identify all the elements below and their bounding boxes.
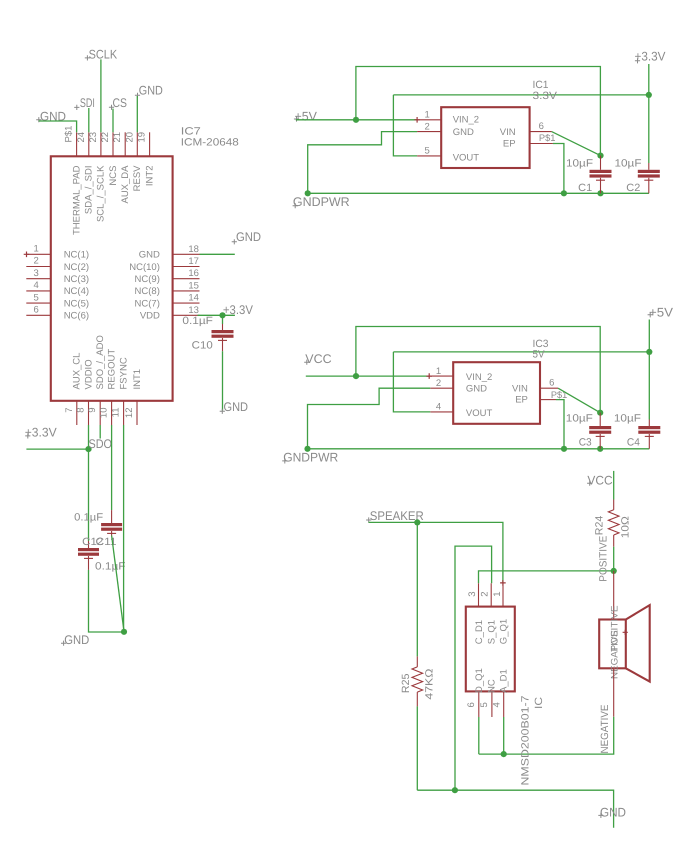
svg-text:6: 6 <box>549 377 554 388</box>
svg-text:1: 1 <box>425 110 430 121</box>
svg-text:A_D1: A_D1 <box>499 669 510 693</box>
wire VCC to R24 <box>613 471 615 500</box>
IC7 top pin 22 (NCS) <box>112 132 114 156</box>
speaker SP1 negative pin <box>613 668 615 716</box>
NMSD pin 4 A_D1 <box>503 691 505 717</box>
svg-text:2: 2 <box>479 592 490 597</box>
wire +3.3V down <box>648 64 650 95</box>
svg-text:8: 8 <box>76 408 87 413</box>
svg-text:NC(1): NC(1) <box>64 250 89 261</box>
node C1 top junction <box>597 153 603 159</box>
capacitor C12 <box>78 548 99 551</box>
wire pin 11 down <box>123 425 125 632</box>
IC7 bottom pin 8 (VDDIO) <box>88 401 90 425</box>
wire VIN loop (IC1) <box>356 67 601 156</box>
svg-text:VIN: VIN <box>512 384 528 395</box>
NMSD pin 3 C_D1 <box>478 583 480 606</box>
svg-text:S_Q1: S_Q1 <box>486 620 497 644</box>
svg-text:VCC: VCC <box>587 474 612 488</box>
wire +3.3V to C2 <box>648 95 650 163</box>
IC1 pin 6 VIN <box>530 131 552 133</box>
node GNDPWR corner junction <box>305 190 311 196</box>
svg-text:6: 6 <box>539 121 544 132</box>
capacitor C2 top lead <box>648 163 650 170</box>
svg-text:+3.3V: +3.3V <box>25 426 58 440</box>
svg-text:NC(8): NC(8) <box>135 286 160 297</box>
IC7 left pin 4 (NC(4)) <box>26 290 51 292</box>
IC7 bottom pin 7 (AUX_CL) <box>76 401 78 425</box>
svg-text:10µF: 10µF <box>566 413 593 425</box>
svg-text:3.3V: 3.3V <box>533 90 558 102</box>
capacitor C10 <box>212 330 234 333</box>
wire VIN diagonal (IC3) <box>558 388 600 413</box>
wire VIN diagonal <box>552 132 601 156</box>
svg-text:AUX_DA: AUX_DA <box>120 165 131 204</box>
svg-text:C1: C1 <box>578 182 592 194</box>
wire pin 4 up <box>503 717 505 754</box>
IC7 right pin 15 (NC(8)) <box>173 290 200 292</box>
wire pin 3 to POSITIVE <box>479 571 614 583</box>
svg-text:GNDPWR: GNDPWR <box>293 195 350 209</box>
svg-text:+3.3V: +3.3V <box>635 49 667 63</box>
node bottom rail junction <box>452 787 458 793</box>
svg-text:7: 7 <box>64 408 75 413</box>
IC7 top pin 21 (AUX_DA) <box>124 132 126 156</box>
wire VOUT to 5V rail <box>393 352 430 412</box>
svg-text:NC(7): NC(7) <box>135 298 160 309</box>
svg-text:SCLK: SCLK <box>89 47 118 61</box>
IC3 pin 2 GND <box>430 387 453 389</box>
svg-text:NC(6): NC(6) <box>64 311 89 322</box>
svg-text:GND: GND <box>453 127 474 138</box>
svg-text:R24: R24 <box>594 516 606 536</box>
node NEGATIVE junction <box>501 751 507 757</box>
svg-text:GND: GND <box>236 230 261 244</box>
IC7 bottom pin 12 (INT1) <box>136 401 138 425</box>
node 5V rail junction <box>646 349 652 355</box>
svg-text:INT2: INT2 <box>144 166 155 187</box>
IC3 pin P$1 EP <box>540 399 556 401</box>
IC3 pin 1 VIN_2 <box>429 375 453 377</box>
capacitor C12 bottom lead <box>88 556 90 570</box>
svg-text:C_D1: C_D1 <box>474 620 485 644</box>
svg-text:NEGATIVE: NEGATIVE <box>599 705 611 754</box>
NMSD pin 1 G_Q1 <box>502 583 504 606</box>
capacitor C1 <box>590 170 612 173</box>
wire pin 9 to SDO <box>99 425 101 439</box>
svg-text:GNDPWR: GNDPWR <box>283 450 338 464</box>
IC7 left pin 2 (NC(2)) <box>26 266 51 268</box>
speaker SP1 polarity mark <box>623 630 628 635</box>
svg-text:RESV: RESV <box>132 165 143 192</box>
IC7 left pin 5 (NC(5)) <box>26 302 51 304</box>
wire +5V to VIN_2 pin 1 <box>296 119 417 121</box>
IC7 right pin 14 (NC(7)) <box>173 302 200 304</box>
IC IC3 body <box>453 362 540 424</box>
svg-text:5: 5 <box>34 292 39 303</box>
svg-text:VIN_2: VIN_2 <box>453 115 479 126</box>
svg-text:VOUT: VOUT <box>466 408 493 419</box>
capacitor C2 <box>638 170 660 173</box>
svg-text:VIN: VIN <box>500 127 516 138</box>
IC NMSD200B01-7 body <box>466 607 515 692</box>
IC IC7 ICM-20648 body <box>51 156 173 400</box>
svg-text:10µF: 10µF <box>614 413 641 425</box>
wire R25 to bottom rail <box>416 706 418 790</box>
svg-text:GND: GND <box>466 384 487 395</box>
capacitor C2 bottom lead <box>648 178 650 194</box>
svg-text:GND: GND <box>64 633 89 647</box>
svg-text:22: 22 <box>100 132 111 143</box>
IC7 top pin 20 (RESV) <box>136 132 138 156</box>
svg-text:C4: C4 <box>627 437 640 449</box>
wire bottom rail <box>417 790 613 828</box>
svg-text:13: 13 <box>188 305 199 316</box>
svg-text:CS: CS <box>113 96 128 110</box>
svg-text:0.1µF: 0.1µF <box>74 511 103 523</box>
IC7 bottom pin 11 (FSYNC) <box>123 401 125 425</box>
svg-text:17: 17 <box>188 256 199 267</box>
svg-text:10µF: 10µF <box>566 157 593 169</box>
svg-text:NC: NC <box>486 679 497 693</box>
wire GND to THERMAL_PAD pin <box>39 121 77 132</box>
svg-text:1: 1 <box>492 592 503 597</box>
capacitor C12 top lead <box>88 541 90 548</box>
svg-text:1: 1 <box>34 244 39 255</box>
svg-text:C2: C2 <box>626 182 640 194</box>
node SPEAKER junction <box>414 519 420 525</box>
svg-text:AUX_CL: AUX_CL <box>72 353 83 390</box>
svg-text:IC: IC <box>533 697 545 709</box>
svg-text:SDA_/_SDI: SDA_/_SDI <box>84 166 95 215</box>
svg-text:P$1: P$1 <box>539 133 556 144</box>
wire CS to pin 22 <box>112 109 114 133</box>
svg-text:47KΩ: 47KΩ <box>424 668 436 699</box>
svg-text:ICM-20648: ICM-20648 <box>181 137 239 149</box>
capacitor C11 top lead <box>111 510 113 523</box>
wire SCLK to pin 23 <box>100 59 102 132</box>
svg-text:2: 2 <box>425 121 430 132</box>
svg-text:3: 3 <box>467 592 478 597</box>
IC7 right pin 16 (NC(9)) <box>173 278 200 280</box>
svg-text:SCL_/_SCLK: SCL_/_SCLK <box>96 165 107 222</box>
svg-text:P$1: P$1 <box>64 126 75 143</box>
wire EP to GNDPWR (IC3) <box>556 400 564 449</box>
svg-text:G_Q1: G_Q1 <box>499 619 510 644</box>
wire pin 10 to C11 <box>111 425 113 510</box>
wire SDI to pin 24 <box>88 108 90 132</box>
capacitor C4 top lead <box>648 420 650 427</box>
svg-text:R25: R25 <box>400 673 412 693</box>
node C3 top junction <box>597 410 603 416</box>
IC3 pin 6 VIN <box>540 387 558 389</box>
svg-text:0.1µF: 0.1µF <box>95 561 126 573</box>
NMSD pin 2 S_Q1 <box>490 583 492 606</box>
svg-text:C10: C10 <box>192 339 213 351</box>
IC7 bottom pin 10 (REGOUT) <box>111 401 113 425</box>
IC3 pin 4 VOUT <box>430 411 453 413</box>
capacitor C3 top lead <box>599 413 601 426</box>
node C3 bottom junction <box>597 446 603 452</box>
svg-text:GND: GND <box>139 250 160 261</box>
wire IC3 GND pin path <box>308 388 431 449</box>
wire R24 to POSITIVE <box>613 547 615 571</box>
svg-text:+5V: +5V <box>295 110 318 124</box>
resistor R25 top lead <box>416 656 418 667</box>
svg-text:10µF: 10µF <box>615 157 642 169</box>
capacitor C3 bottom lead <box>599 434 601 449</box>
svg-text:REGOUT: REGOUT <box>106 349 117 390</box>
svg-text:5: 5 <box>479 702 490 707</box>
svg-text:5: 5 <box>425 146 430 157</box>
svg-text:1: 1 <box>436 366 441 377</box>
wire GNDPWR rail (IC3) <box>308 448 650 450</box>
svg-text:2: 2 <box>436 378 441 389</box>
IC7 top pin 19 (INT2) <box>149 132 151 156</box>
wire pin 8 to C12 <box>88 449 90 541</box>
IC7 left pin 3 (NC(3)) <box>26 278 51 280</box>
svg-text:20: 20 <box>124 132 135 143</box>
node VCC junction <box>353 373 359 379</box>
wire +5V to C4 <box>648 352 650 420</box>
svg-text:SDO_/_ADO: SDO_/_ADO <box>95 335 106 389</box>
svg-text:EP: EP <box>515 394 528 405</box>
node VDDIO junction <box>85 446 91 452</box>
svg-text:NC(2): NC(2) <box>64 262 89 273</box>
node GNDPWR corner junction (IC3) <box>304 446 310 452</box>
svg-text:INT1: INT1 <box>132 369 143 390</box>
svg-text:0.1µF: 0.1µF <box>182 315 213 327</box>
node +5V junction <box>353 117 359 123</box>
wire C12 to corner <box>89 570 125 632</box>
wire SPEAKER to pin 1 <box>369 522 503 583</box>
svg-text:VOUT: VOUT <box>453 152 480 163</box>
capacitor C4 <box>638 426 660 429</box>
speaker SP1 positive pin <box>613 571 615 620</box>
IC7 left pin 1 (NC(1)) <box>26 253 51 255</box>
svg-text:12: 12 <box>124 408 135 419</box>
IC IC1 body <box>441 107 529 168</box>
speaker SP1 horn <box>626 605 650 682</box>
wire 3.3V rail <box>393 94 648 96</box>
resistor R24 top lead <box>613 500 615 510</box>
svg-text:NC(9): NC(9) <box>135 274 160 285</box>
svg-text:16: 16 <box>188 268 199 279</box>
svg-text:VDDIO: VDDIO <box>83 359 94 389</box>
svg-text:NC(5): NC(5) <box>64 298 89 309</box>
wire GND to pin 20 <box>136 96 138 132</box>
svg-text:10Ω: 10Ω <box>619 516 631 538</box>
svg-text:6: 6 <box>466 702 477 707</box>
svg-text:THERMAL_PAD: THERMAL_PAD <box>71 165 82 235</box>
svg-text:14: 14 <box>188 293 199 304</box>
resistor R24 bottom lead <box>613 535 615 547</box>
capacitor C10 bottom lead <box>222 338 224 351</box>
svg-text:5V: 5V <box>533 349 545 361</box>
wire IC1 GND pin path <box>308 132 417 194</box>
node GND junction (IC7) <box>121 629 127 635</box>
IC3 pin1 end cross <box>426 373 432 379</box>
svg-text:11: 11 <box>111 408 122 418</box>
svg-text:EP: EP <box>503 139 516 150</box>
svg-text:POSITIVE: POSITIVE <box>597 536 609 582</box>
capacitor C4 bottom lead <box>648 434 650 449</box>
IC7 top pin 23 (SCL_/_SCLK) <box>100 132 102 156</box>
wire NEGATIVE <box>479 717 614 754</box>
svg-text:NMSD200B01-7: NMSD200B01-7 <box>520 695 532 785</box>
IC7 top pin P$1 (THERMAL_PAD) <box>76 132 78 156</box>
svg-text:NC(3): NC(3) <box>64 274 89 285</box>
node VDD junction <box>219 312 225 318</box>
svg-text:4: 4 <box>491 702 502 707</box>
node C1 bottom junction <box>597 190 603 196</box>
svg-text:2: 2 <box>34 256 39 267</box>
wire +3.3V to VDDIO pin 8 <box>26 448 88 450</box>
NMSD pin 5 NC <box>491 691 493 717</box>
svg-text:+5V: +5V <box>649 305 674 319</box>
svg-text:GND: GND <box>600 805 626 819</box>
svg-text:NC(10): NC(10) <box>129 262 160 273</box>
wire VOUT to 3.3V rail <box>393 95 417 156</box>
svg-text:9: 9 <box>87 408 98 413</box>
node EP junction (IC3) <box>561 446 567 452</box>
svg-text:10: 10 <box>99 408 110 419</box>
IC7 right pin 18 (GND) <box>173 253 200 255</box>
resistor R24 <box>608 510 619 535</box>
IC1 pin 2 GND <box>417 131 441 133</box>
wire C10 to GND <box>222 351 224 410</box>
wire +5V down <box>648 320 650 352</box>
capacitor C1 top lead <box>600 156 602 170</box>
resistor R25 <box>412 667 423 692</box>
IC1 pin 5 VOUT <box>417 155 441 157</box>
svg-text:3: 3 <box>34 268 39 279</box>
svg-text:NCS: NCS <box>108 166 119 186</box>
wire pin 6 up <box>478 717 480 754</box>
capacitor C11 <box>101 523 122 526</box>
speaker SP1 body <box>599 620 626 669</box>
node EP junction <box>561 190 567 196</box>
svg-text:SDI: SDI <box>80 96 95 110</box>
svg-text:VCC: VCC <box>305 352 331 366</box>
IC7 pin1 end cross <box>24 252 30 258</box>
svg-text:18: 18 <box>188 244 199 255</box>
IC7 right pin 13 (VDD) <box>173 314 200 316</box>
wire EP to GNDPWR <box>553 144 564 194</box>
IC7 right pin 17 (NC(10)) <box>173 266 200 268</box>
svg-text:VIN_2: VIN_2 <box>466 372 492 383</box>
IC1 pin P$1 EP <box>530 143 553 145</box>
svg-text:24: 24 <box>76 132 87 143</box>
IC1 pin 1 VIN_2 <box>417 119 441 121</box>
svg-text:C3: C3 <box>579 437 592 449</box>
resistor R25 bottom lead <box>416 692 418 706</box>
capacitor C10 top lead <box>222 315 224 324</box>
svg-text:+3.3V: +3.3V <box>223 303 254 317</box>
svg-text:SDO: SDO <box>89 437 113 451</box>
svg-text:6: 6 <box>34 305 39 316</box>
svg-text:23: 23 <box>88 132 99 143</box>
svg-text:GND: GND <box>139 84 163 98</box>
wire pin 13 VDD to +3.3V <box>198 314 235 316</box>
capacitor C11 bottom lead <box>111 531 113 536</box>
svg-text:19: 19 <box>137 132 148 143</box>
wire pin 18 to GND <box>200 253 235 255</box>
svg-text:15: 15 <box>188 280 199 291</box>
svg-text:VDD: VDD <box>140 311 160 322</box>
NMSD pin 6 D_Q1 <box>478 691 480 717</box>
capacitor C1 bottom lead <box>600 178 602 194</box>
wire SPEAKER to R25 <box>416 522 418 656</box>
IC7 left pin 6 (NC(6)) <box>26 314 51 316</box>
wire pin 8 down <box>88 425 90 449</box>
wire VIN loop (IC3) <box>356 327 600 413</box>
speaker IC pin1 cross <box>500 580 506 586</box>
node 3.3V rail junction <box>646 92 652 98</box>
wire GNDPWR rail (IC1) <box>308 192 649 194</box>
svg-text:21: 21 <box>112 132 123 143</box>
svg-text:4: 4 <box>436 402 441 413</box>
IC7 top pin 24 (SDA_/_SDI) <box>88 132 90 156</box>
svg-text:4: 4 <box>34 280 39 291</box>
IC1 pin1 end cross <box>414 117 420 123</box>
svg-text:FSYNC: FSYNC <box>118 357 129 389</box>
wire VCC to VIN_2 pin 1 <box>306 375 429 377</box>
svg-text:D_Q1: D_Q1 <box>474 668 485 693</box>
wire 5V rail <box>393 351 649 353</box>
svg-text:GND: GND <box>224 400 249 414</box>
wire C11 diagonal to junction <box>112 536 124 632</box>
node POSITIVE junction <box>611 568 617 574</box>
IC7 bottom pin 9 (SDO_/_ADO) <box>99 401 101 425</box>
svg-text:NC(4): NC(4) <box>64 286 89 297</box>
wire pin 2 path <box>455 546 492 790</box>
svg-text:NEGATIVE: NEGATIVE <box>610 630 621 679</box>
capacitor C3 <box>589 426 611 429</box>
